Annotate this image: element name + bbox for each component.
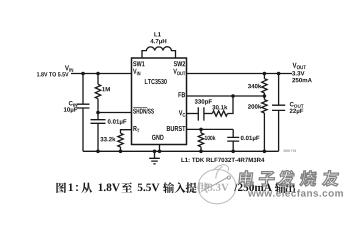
value 1.8V TO 5.5V [37,72,69,76]
wire FB pin [187,95,265,97]
pin BURST [167,126,186,131]
label LTC3530 [145,79,167,84]
value 4.7uH [150,39,166,45]
value 0.01uF soft-start [108,119,127,125]
watermark logo bubble [198,165,236,204]
IC U1 LTC3530 body [132,58,187,145]
ground symbol [149,151,160,164]
resistor 33.2k [118,133,123,147]
capacitor 0.01uF burst [227,129,239,151]
note L1 part number [181,158,264,162]
pin FB [178,92,185,97]
resistor 1M [97,74,99,85]
pin SW2 [174,61,185,66]
wire RT pin [121,130,132,134]
watermark url [248,189,343,196]
caption figure 1 [56,182,295,193]
label L1 [154,32,161,36]
node VIN label [65,65,73,71]
wire VC pin [187,113,199,115]
capacitor CIN 10uF [77,74,90,152]
label CIN [69,101,77,107]
wire VC network to FB node [228,96,234,114]
wire SHDN/SS pin [98,112,132,114]
resistor 340k [263,74,265,79]
junction dots [81,72,280,153]
wire GND pin lead [159,145,161,152]
capacitor 0.01uF soft-start [91,113,106,152]
ghost gong char [197,182,208,193]
pin SW1 [133,61,144,66]
value 10uF [64,107,77,113]
inductor L1 [142,47,176,58]
value 0.01uF burst [241,136,260,142]
ghost 3.3V [208,184,229,191]
resistor 200k [263,96,265,100]
pin VOUT [173,69,185,76]
pin VIN [133,69,140,75]
capacitor 330pF [198,107,204,120]
value 22uF [290,109,304,115]
value 30.1k [212,105,227,110]
pin GND [152,135,164,140]
wire VIN rail [71,73,132,75]
wire BURST pin [187,128,234,130]
watermark text dian zi fa shao you [239,171,340,187]
caption value 250mA [234,184,272,192]
capacitor COUT 22uF [272,74,285,152]
pin SHDN/SS [133,108,154,113]
pin RT [133,126,139,132]
pin VC [179,110,185,117]
wire VOUT rail [187,73,293,75]
wire ground rail [83,150,279,152]
value 330pF [195,99,212,105]
note figure number [283,150,296,152]
value 250mA [292,78,312,82]
caption latin runs [69,184,73,192]
value 340k [248,84,261,89]
value 200k [248,104,261,109]
value 33.2k [100,137,115,142]
node VOUT label [293,63,307,70]
label COUT [290,102,304,108]
value 3.3V output [292,71,304,75]
resistor 100k [200,129,202,133]
resistor 30.1k [204,113,212,115]
value 100k [205,136,216,141]
value 1M [102,87,110,91]
